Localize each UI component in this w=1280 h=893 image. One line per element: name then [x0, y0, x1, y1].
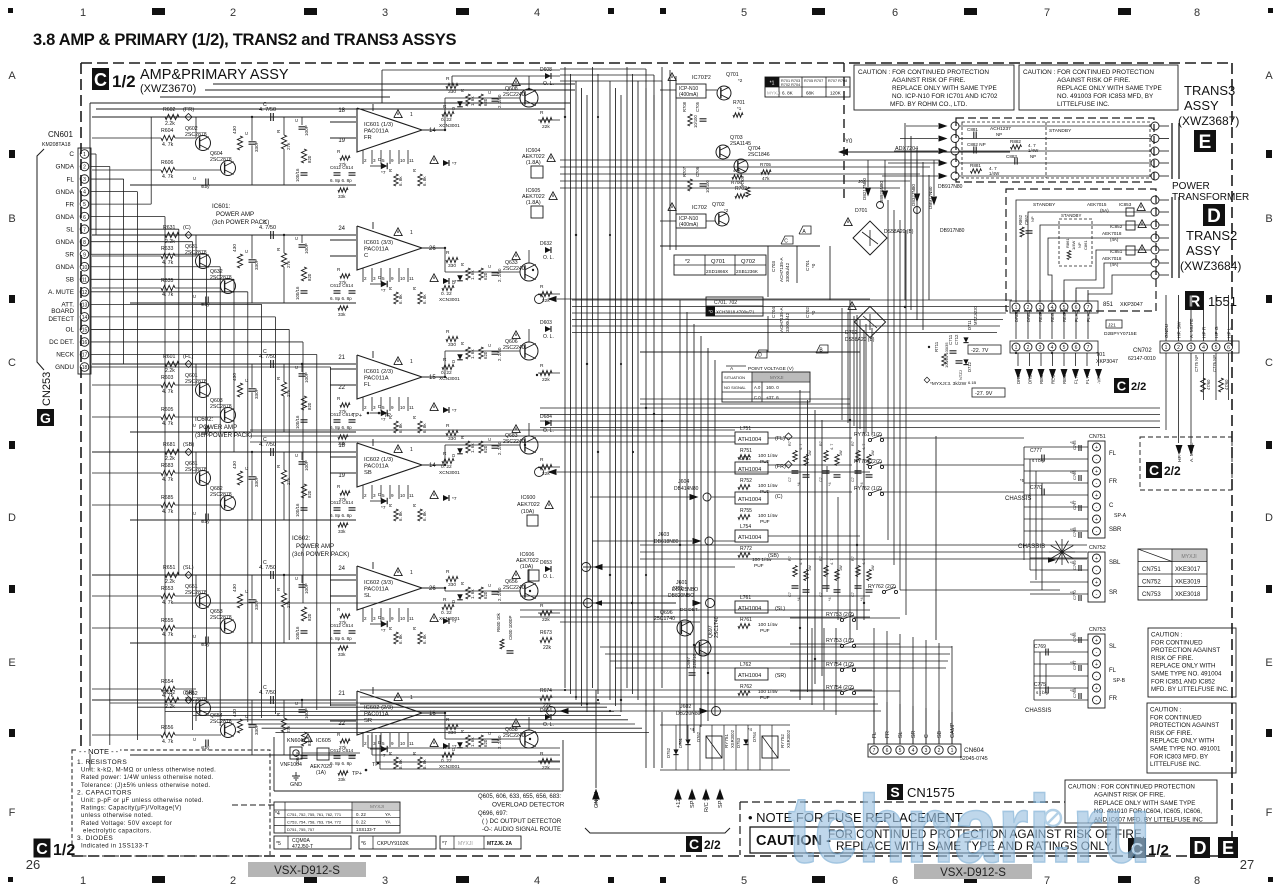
svg-text:100/10 100/35: 100/10 100/35 [944, 342, 949, 368]
svg-text:4. 7k: 4. 7k [162, 174, 174, 180]
svg-text:CN752: CN752 [1089, 545, 1106, 551]
amp channel FL input network [92, 363, 356, 365]
svg-text:2. CAPACITORS: 2. CAPACITORS [77, 789, 132, 796]
svg-text:100P: 100P [304, 372, 309, 383]
svg-text:R707: R707 [682, 166, 687, 177]
svg-text:12: 12 [82, 290, 88, 296]
power node GNDU [592, 789, 600, 800]
svg-text:CN601: CN601 [48, 130, 73, 139]
svg-text:*5: *5 [276, 841, 281, 847]
transformer standby inner box [1059, 219, 1092, 266]
svg-text:9: 9 [391, 493, 394, 498]
svg-text:430: 430 [232, 373, 238, 381]
relay switch RY753 (2/2) [840, 618, 843, 621]
wire bus mid horizontals [540, 407, 1160, 409]
assy dashed border [81, 62, 1232, 64]
svg-text:4. 7: 4. 7 [830, 444, 834, 450]
svg-text:1W: 1W [839, 565, 843, 571]
transistor Q683 2SC2240 [520, 436, 538, 454]
svg-text:REPLACE ONLY WITH: REPLACE ONLY WITH [1151, 663, 1215, 670]
svg-text:L762: L762 [740, 662, 751, 668]
capacitor C610 100/16 [301, 630, 308, 632]
svg-text:R861: R861 [1065, 238, 1070, 248]
svg-text:C7: C7 [819, 592, 823, 597]
svg-text:100/16: 100/16 [295, 286, 300, 300]
svg-text:(FR): (FR) [183, 107, 194, 113]
svg-text:R: R [446, 76, 450, 82]
bottom rail [130, 431, 356, 433]
svg-text:-: - [1096, 568, 1098, 574]
transistor Q654 2SC2878 [221, 723, 236, 738]
transistor Q602 2SC2878 [196, 136, 211, 151]
op-amp bottom pins [362, 397, 364, 411]
diode bridge D702 DS58A20(B) [854, 306, 885, 337]
svg-text:3: 3 [382, 875, 388, 887]
svg-text:SP-A: SP-A [690, 795, 696, 808]
svg-text:100 1/4w: 100 1/4w [758, 483, 778, 489]
svg-text:C: C [94, 70, 107, 90]
svg-text:SR: SR [65, 251, 74, 258]
svg-text:*0: *0 [811, 310, 816, 315]
svg-text:SL: SL [1109, 644, 1117, 650]
wire bus to transformer pins [572, 299, 1012, 301]
svg-text:HP. SW: HP. SW [1177, 445, 1183, 462]
svg-text:1/2: 1/2 [1148, 842, 1169, 859]
svg-text:5: 5 [382, 741, 385, 746]
svg-text:C777: C777 [1030, 448, 1042, 454]
svg-text:1W: 1W [808, 565, 812, 571]
wire bus central verticals [564, 67, 566, 688]
wire loop top-left [90, 102, 570, 104]
svg-text:17: 17 [82, 353, 88, 359]
svg-text:1: 1 [410, 695, 413, 701]
assy label S CN1575 [887, 784, 903, 800]
svg-text:NO. 491003 FOR IC853 MFD, BY: NO. 491003 FOR IC853 MFD, BY [1057, 93, 1154, 100]
svg-text:R711: R711 [934, 341, 939, 352]
svg-text:2/2: 2/2 [704, 838, 721, 852]
svg-text:A. MUTE: A. MUTE [1189, 319, 1195, 338]
svg-text:22k: 22k [542, 617, 550, 623]
svg-text:ASSY: ASSY [1184, 98, 1219, 113]
svg-text:C: C [8, 357, 16, 369]
caution box 2 LITTELFUSE [1019, 65, 1178, 110]
svg-text:A: A [8, 70, 16, 82]
resistor 0.22 XCN3001 [442, 111, 454, 116]
svg-text:D: D [451, 360, 456, 363]
svg-text:R656: R656 [161, 725, 174, 731]
svg-text:6: 6 [1227, 345, 1230, 351]
svg-text:22k: 22k [542, 124, 550, 130]
svg-text:Ratings: Capacity(μF)/Voltage(: Ratings: Capacity(μF)/Voltage(V) [81, 806, 182, 812]
svg-text:10: 10 [82, 265, 88, 271]
svg-text:SR: SR [364, 718, 372, 724]
svg-text:J0: J0 [858, 179, 863, 185]
diode vertical [457, 101, 463, 107]
svg-text:430: 430 [232, 244, 238, 252]
svg-text:RY754 (1/2): RY754 (1/2) [826, 662, 854, 668]
wire bus bottom horizontals [110, 702, 600, 704]
svg-text:G: G [40, 410, 51, 426]
svg-text:IC702: IC702 [692, 205, 707, 211]
op-amp bottom pins [362, 150, 364, 164]
svg-text:D711: D711 [967, 320, 972, 330]
svg-text:s t b y: s t b y [1036, 690, 1049, 695]
svg-text:D: D [1194, 838, 1207, 858]
wire bus mid-left extension [250, 429, 735, 431]
diode vertical [457, 448, 463, 454]
resistor 22k output [540, 610, 552, 615]
svg-text:18: 18 [338, 108, 345, 114]
svg-text:100 1/4w: 100 1/4w [758, 622, 778, 628]
wire relay feed drops [645, 700, 647, 768]
svg-text:TRANSFORMER: TRANSFORMER [1172, 192, 1249, 203]
svg-text:ATH1004: ATH1004 [738, 437, 761, 443]
svg-text:D701: D701 [855, 208, 868, 214]
resistor R656 4.7k [161, 732, 175, 737]
svg-text:R633: R633 [161, 246, 174, 252]
svg-text:ATH1004: ATH1004 [738, 606, 761, 612]
svg-text:0. 22: 0. 22 [356, 812, 366, 817]
capacitor stby 1000P [205, 426, 207, 433]
diode D604 *7 [430, 403, 438, 411]
svg-text:C697: C697 [686, 657, 691, 668]
svg-text:R674: R674 [540, 688, 552, 694]
svg-text:R: R [412, 169, 417, 172]
svg-text:(3ch POWER PACK): (3ch POWER PACK) [212, 219, 269, 226]
op-amp IC602 (3/3) PAC011A SL [357, 566, 422, 610]
table *7 MTZJ6.2A [440, 836, 521, 849]
svg-text:2/2: 2/2 [1131, 381, 1146, 393]
svg-text:E: E [1199, 132, 1212, 153]
svg-text:1/4W: 1/4W [1028, 148, 1039, 153]
transistor Q652 2SC2878 [196, 701, 211, 716]
resistor 0.22 XCN3001 [442, 458, 454, 463]
svg-text:R606: R606 [161, 160, 174, 166]
svg-text:O. L.: O. L. [543, 81, 554, 87]
svg-text:15: 15 [82, 328, 88, 334]
svg-text:D: D [1265, 512, 1273, 524]
svg-text:R761: R761 [740, 617, 752, 623]
svg-text:R: R [460, 342, 465, 345]
note box [72, 750, 270, 856]
svg-text:2SC2878: 2SC2878 [210, 615, 232, 621]
wire stubs into CN751 [1024, 446, 1088, 448]
svg-text:52045-0745: 52045-0745 [960, 756, 988, 762]
svg-text:0. 22: 0. 22 [441, 291, 452, 297]
svg-text:KN601: KN601 [287, 738, 303, 744]
wire verticals right-mid bundle A [841, 308, 843, 420]
svg-text:NP: NP [1030, 154, 1036, 159]
svg-text:D632: D632 [540, 241, 552, 247]
svg-text:(FL): (FL) [183, 354, 193, 360]
svg-text:D751, 755, 757: D751, 755, 757 [287, 827, 315, 832]
svg-text:IC853: IC853 [1119, 202, 1132, 207]
svg-text:DB917N80: DB917N80 [938, 184, 963, 190]
svg-text:R7: R7 [788, 556, 792, 561]
svg-text:2. 2/50: 2. 2/50 [497, 441, 502, 455]
svg-text:AEK7022: AEK7022 [517, 502, 540, 508]
svg-text:6: 6 [1075, 305, 1078, 311]
svg-text:6. 8p 6. 8p: 6. 8p 6. 8p [330, 178, 352, 183]
svg-text:XCN3001: XCN3001 [439, 297, 460, 303]
svg-text:FR: FR [1109, 696, 1118, 702]
svg-text:100/16: 100/16 [295, 503, 300, 517]
svg-text:unless otherwise noted.: unless otherwise noted. [81, 813, 153, 819]
capacitor 330P vertical [249, 476, 256, 478]
amp channel FR input network [92, 116, 356, 118]
svg-text:18: 18 [82, 365, 88, 371]
transistor Q601 2SC2878 [196, 383, 211, 398]
resistor 430 vertical [237, 136, 242, 150]
svg-text:1: 1 [80, 875, 86, 887]
svg-text:330P: 330P [254, 599, 259, 610]
svg-text:XCN3001: XCN3001 [439, 123, 460, 129]
svg-text:2SC2240: 2SC2240 [503, 345, 525, 351]
svg-text:R7: R7 [819, 556, 823, 561]
svg-text:+12V: +12V [676, 795, 682, 808]
svg-text:C706: C706 [695, 166, 700, 177]
svg-text:REG G: REG G [1050, 309, 1055, 323]
wire bus top-right horizontals [560, 159, 940, 161]
resistor R708 10/100 vertical [688, 114, 692, 126]
svg-text:TRANS3: TRANS3 [1184, 83, 1235, 98]
svg-text:POWER AMP: POWER AMP [199, 424, 237, 431]
svg-text:R: R [460, 89, 465, 92]
svg-text:9: 9 [391, 158, 394, 163]
svg-text:R7: R7 [851, 556, 855, 561]
svg-text:R604: R604 [161, 128, 174, 134]
svg-text:2SC2240: 2SC2240 [503, 733, 525, 739]
svg-text:NP: NP [996, 132, 1002, 137]
svg-text:R631: R631 [163, 225, 176, 231]
svg-text:FL: FL [67, 176, 75, 183]
svg-text:C7: C7 [819, 477, 823, 482]
svg-text:C7: C7 [851, 477, 855, 482]
power node R/C SP [702, 789, 710, 800]
svg-text:DREG: DREG [1028, 371, 1033, 384]
bracket under arrows [585, 828, 730, 833]
svg-text:Q701: Q701 [711, 259, 725, 265]
svg-text:1: 1 [410, 112, 413, 118]
svg-text:4. 7/50: 4. 7/50 [259, 565, 276, 571]
svg-text:CHASSIS: CHASSIS [1025, 708, 1051, 714]
svg-text:2.2k: 2.2k [165, 121, 175, 127]
svg-text:MTZJ/220: MTZJ/220 [973, 305, 978, 325]
svg-text:7: 7 [873, 748, 876, 754]
svg-text:10: 10 [400, 493, 406, 498]
resistor R616 6.8k vertical [394, 292, 398, 304]
resistor R616 6.8k vertical [394, 421, 398, 433]
svg-text:*4: *4 [860, 597, 864, 601]
svg-text:120K: 120K [830, 91, 842, 96]
svg-text:*4: *4 [828, 482, 832, 486]
resistor R612 820 vertical [301, 607, 306, 621]
svg-text:(SB): (SB) [183, 442, 194, 448]
svg-text:22k: 22k [542, 765, 550, 771]
svg-text:STANDBY: STANDBY [1049, 128, 1072, 134]
svg-text:PROTECTION AGAINST: PROTECTION AGAINST [1151, 647, 1220, 654]
resistor R612 820 vertical [301, 484, 306, 498]
svg-text:0. 22: 0. 22 [441, 758, 452, 764]
caps *5 column B [1078, 637, 1080, 643]
svg-text:R: R [446, 250, 450, 256]
svg-text:FR: FR [65, 201, 74, 208]
svg-text:PAC011A: PAC011A [364, 246, 389, 252]
svg-text:820: 820 [307, 402, 312, 410]
svg-text:KM208TA18: KM208TA18 [42, 142, 71, 148]
svg-text:*2: *2 [706, 75, 711, 81]
svg-text:GNDU: GNDU [594, 792, 600, 808]
amp channel SL input network [92, 574, 356, 576]
svg-text:IC701: IC701 [692, 75, 707, 81]
wire verticals right-mid bundle B [887, 200, 889, 540]
svg-text:9: 9 [391, 405, 394, 410]
svg-text:E: E [8, 657, 15, 669]
resistor R650 33k [338, 646, 348, 650]
svg-text:100P: 100P [304, 243, 309, 254]
svg-text:C: C [487, 732, 492, 735]
svg-text:6. 8k: 6. 8k [422, 294, 427, 304]
power node SP-B [716, 789, 724, 800]
svg-text:SP-B: SP-B [718, 795, 724, 808]
transformer TRANS2 box [1006, 189, 1156, 311]
svg-text:6: 6 [892, 7, 898, 19]
audio route node [535, 468, 544, 477]
svg-text:19: 19 [338, 138, 345, 144]
svg-text:1551: 1551 [1208, 294, 1237, 309]
power arrows DREG REG [1017, 353, 1019, 366]
svg-text:IC602 (3/3): IC602 (3/3) [364, 580, 393, 586]
svg-text:C703: C703 [771, 261, 776, 272]
svg-text:L751: L751 [740, 426, 751, 432]
svg-text:1: 1 [1165, 345, 1168, 351]
svg-text:C600 1000P: C600 1000P [508, 616, 513, 640]
svg-text:330: 330 [448, 89, 456, 95]
svg-text:6. 8K: 6. 8K [782, 91, 794, 96]
svg-text:6. 8p 6. 8p: 6. 8p 6. 8p [330, 636, 352, 641]
resistor R604 4.7k [161, 135, 175, 140]
svg-text:2SD1866X: 2SD1866X [706, 269, 728, 274]
svg-text:+: + [1095, 662, 1098, 668]
diode D602 *7 [381, 621, 387, 627]
resistor R610 27k vertical [281, 135, 286, 149]
svg-text:O. L.: O. L. [543, 428, 554, 434]
svg-text:*7: *7 [381, 288, 386, 294]
svg-text:11: 11 [409, 276, 414, 281]
output wires [444, 98, 446, 130]
svg-text:C: C [364, 253, 368, 259]
resistor R618 6.8k vertical [418, 509, 422, 521]
svg-text:6. 8p 6. 8p: 6. 8p 6. 8p [330, 761, 352, 766]
caution box IC803 [1147, 703, 1236, 773]
svg-text:100P: 100P [304, 708, 309, 719]
resistor 620 vertical [479, 441, 483, 453]
svg-text:XKP3047: XKP3047 [1096, 359, 1118, 365]
resistor R706 47k [732, 175, 742, 179]
svg-text:5: 5 [741, 7, 747, 19]
chassis star node [1062, 551, 1075, 553]
resistor 620 vertical [479, 347, 483, 359]
svg-text:2: 2 [1027, 345, 1030, 351]
svg-text:2: 2 [230, 7, 236, 19]
svg-text:C612 C614: C612 C614 [330, 283, 354, 288]
svg-text:+: + [1095, 469, 1098, 475]
svg-text:6. 8k: 6. 8k [398, 634, 403, 644]
svg-text:IC605: IC605 [316, 738, 331, 744]
node flag C [781, 236, 793, 244]
svg-text:6. 8k: 6. 8k [422, 511, 427, 521]
svg-text:C612 C614: C612 C614 [330, 623, 354, 628]
capacitor 330P vertical [249, 724, 256, 726]
svg-text:1W: 1W [839, 450, 843, 456]
resistor R650 33k [338, 771, 348, 775]
svg-text:SB: SB [364, 470, 372, 476]
ground GND [295, 772, 297, 776]
svg-text:R685: R685 [161, 495, 174, 501]
svg-text:-22. 7V: -22. 7V [971, 348, 989, 354]
capacitor C776 NP 47/60 [1219, 378, 1224, 392]
svg-text:E: E [1265, 657, 1272, 669]
output wires [444, 713, 446, 739]
svg-text:C: C [487, 584, 492, 587]
svg-text:33k: 33k [338, 194, 346, 199]
svg-text:DETECT: DETECT [48, 316, 74, 323]
svg-text:4. 7k: 4. 7k [162, 389, 174, 395]
svg-text:R: R [460, 263, 465, 266]
junction dots row wires [1015, 312, 1017, 314]
diode D711 MTZJ/220 [963, 337, 968, 342]
svg-text:C751, 752, 755, 761, 762, 771: C751, 752, 755, 761, 762, 771 [287, 812, 342, 817]
wires CN702 down [1165, 353, 1167, 430]
resistor 1.6k vertical [466, 587, 470, 599]
svg-text:(10A): (10A) [520, 564, 533, 570]
svg-text:C: C [487, 344, 492, 347]
resistor 0.22 XCN3001 [442, 604, 454, 609]
svg-text:L752: L752 [740, 456, 751, 462]
coil L753 ATH1004 [735, 492, 768, 504]
svg-text:PUF: PUF [760, 695, 770, 701]
svg-text:100 1/4w: 100 1/4w [758, 453, 778, 459]
svg-text:430: 430 [232, 584, 238, 592]
svg-text:XCN3001: XCN3001 [439, 470, 460, 476]
svg-text:IC602:: IC602: [292, 535, 311, 542]
svg-text:330: 330 [448, 436, 456, 442]
transistor Q603 2SC2878 [221, 408, 236, 423]
resistor 1.6k vertical [466, 268, 470, 280]
feedback wires [422, 247, 445, 249]
svg-text:Rated Voltage: 50V except for: Rated Voltage: 50V except for [81, 821, 172, 827]
wire verticals CN702 up [1165, 295, 1167, 341]
capacitor stby 1000P [205, 514, 207, 521]
svg-text:R: R [540, 284, 544, 290]
svg-text:HP R: HP R [1202, 326, 1208, 338]
svg-text:CN753: CN753 [1142, 592, 1161, 598]
svg-text:6: 6 [1075, 345, 1078, 351]
transistor Q681 2SC2878 [196, 471, 211, 486]
diode D602 *7 [381, 163, 387, 169]
capacitor 330P vertical [249, 599, 256, 601]
watermark tehnari.ru [788, 776, 1151, 883]
resistor 22k output [540, 291, 552, 296]
svg-text:*4: *4 [748, 727, 753, 732]
output wires [444, 351, 446, 377]
capacitor 2.2/50 NP [492, 445, 499, 447]
table #1 resistor values [765, 77, 850, 97]
svg-text:1: 1 [410, 359, 413, 365]
capacitor stby 1000P [205, 179, 207, 186]
svg-text:J603: J603 [658, 532, 669, 538]
label R 1551 [1185, 291, 1204, 310]
